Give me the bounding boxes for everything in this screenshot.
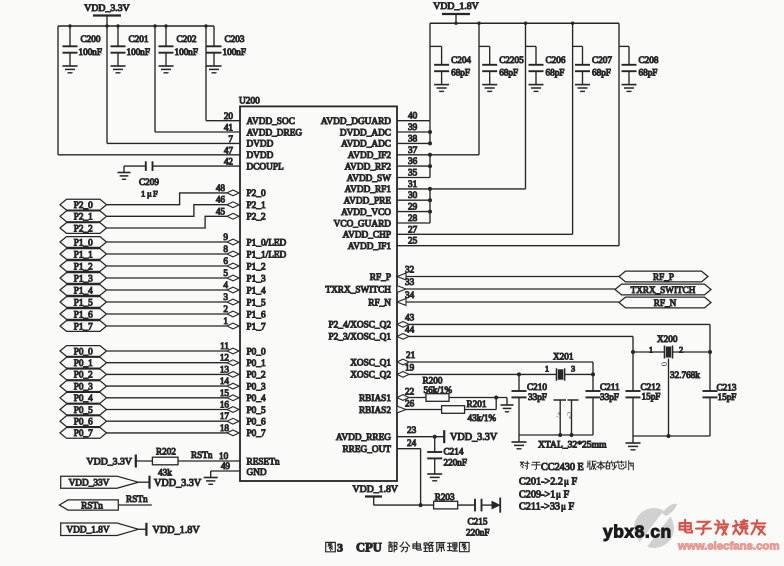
svg-text:15pF: 15pF — [718, 392, 737, 402]
svg-text:AVDD_SOC: AVDD_SOC — [247, 117, 295, 127]
svg-text:CC2430 E: CC2430 E — [541, 462, 584, 473]
port RF_N — [619, 297, 711, 308]
wire tie pins 31,30,29,28 — [397, 179, 526, 223]
svg-text:21: 21 — [406, 350, 416, 360]
svg-text:68pF: 68pF — [499, 68, 518, 78]
svg-text:F: F — [153, 189, 158, 199]
svg-text:20: 20 — [224, 111, 234, 121]
power tap VDD_1.8V under chip — [353, 484, 398, 505]
caption figure 3 — [326, 541, 469, 555]
svg-text:68pF: 68pF — [451, 68, 470, 78]
svg-text:C209: C209 — [139, 177, 159, 187]
svg-text:P1_3: P1_3 — [74, 273, 93, 283]
svg-text:40: 40 — [408, 111, 418, 121]
capacitor C202 100nF — [159, 26, 199, 66]
svg-text:42: 42 — [224, 157, 234, 167]
svg-text:45: 45 — [216, 206, 226, 216]
svg-text:33: 33 — [405, 277, 415, 287]
capacitor C203 100nF — [207, 26, 247, 66]
capacitor C204 68pF — [430, 46, 471, 84]
svg-text:RSTn: RSTn — [126, 495, 148, 505]
ground under C201 — [111, 66, 126, 73]
ground under C202 — [159, 66, 174, 73]
svg-text:C202: C202 — [177, 34, 197, 44]
svg-text:11: 11 — [220, 341, 229, 351]
pin 7 number — [228, 134, 233, 144]
pin 20 number — [224, 111, 234, 121]
svg-text:AVDD_IF2: AVDD_IF2 — [348, 151, 392, 161]
svg-text:33pF: 33pF — [528, 392, 547, 402]
wire pin 21 XOSC_Q1 — [397, 350, 593, 374]
svg-text:46: 46 — [216, 195, 226, 205]
wire P1_3 to pin 5 — [107, 268, 240, 281]
port RF_P — [619, 271, 708, 282]
svg-text:μ: μ — [147, 189, 152, 199]
svg-text:P1_5: P1_5 — [247, 298, 266, 308]
port RSTn — [59, 500, 118, 511]
port P0_0 — [60, 346, 107, 357]
wire pin 24 RREG_OUT — [397, 438, 421, 505]
svg-text:36: 36 — [408, 156, 418, 166]
terminal after C215 — [492, 498, 500, 513]
port P2_2 — [60, 223, 107, 234]
svg-text:0: 0 — [660, 362, 669, 366]
svg-text:6: 6 — [223, 256, 228, 266]
svg-text:X200: X200 — [657, 334, 678, 344]
svg-text:18: 18 — [220, 423, 230, 433]
pin 42 DCOUPL wire + number — [153, 157, 241, 167]
wire P1_2 to pin 6 — [107, 256, 240, 269]
svg-text:*7: *7 — [554, 412, 560, 418]
wire 1.8V riser x=430 — [429, 23, 431, 121]
svg-text:P0_0: P0_0 — [247, 347, 266, 357]
watermark logo circle — [634, 504, 677, 548]
ground under C204 — [434, 85, 449, 92]
port P0_4 — [60, 392, 107, 403]
wire P1_5 to pin 3 — [107, 292, 240, 305]
port P1_5 — [60, 297, 107, 308]
port P0_5 — [60, 404, 107, 415]
svg-text:U200: U200 — [239, 97, 260, 107]
wire P0_1 to pin 12 — [107, 353, 240, 366]
wire 1.8V riser x=479 — [478, 23, 480, 155]
wire tie pins 40,39,38 — [397, 111, 432, 146]
svg-text:P2_2: P2_2 — [74, 223, 93, 233]
svg-text:AVDD_IF1: AVDD_IF1 — [348, 242, 392, 252]
svg-text:32: 32 — [405, 265, 415, 275]
svg-text:33pF: 33pF — [600, 392, 619, 402]
op IC U200 CC2430 body — [239, 97, 397, 482]
capacitor C214 220nF — [427, 437, 467, 474]
svg-text:DCOUPL: DCOUPL — [247, 162, 285, 172]
wire X200 bottom rail — [633, 434, 710, 438]
svg-text:P1_6: P1_6 — [247, 310, 266, 320]
svg-text:P0_2: P0_2 — [74, 370, 93, 380]
svg-text:RSTn: RSTn — [191, 450, 213, 460]
port P2_1 — [60, 211, 107, 222]
svg-text:2: 2 — [679, 346, 683, 355]
capacitor C207 68pF — [573, 46, 613, 84]
svg-text:8: 8 — [223, 244, 228, 254]
port TXRX_SWITCH — [615, 284, 711, 295]
svg-text:44: 44 — [405, 324, 415, 334]
svg-text:P1_0: P1_0 — [74, 237, 93, 247]
svg-text:C211->33: C211->33 — [519, 502, 560, 513]
ground pin49 — [204, 478, 218, 485]
svg-text:VDD_3.3V: VDD_3.3V — [154, 478, 202, 489]
svg-text:VCO_GUARD: VCO_GUARD — [334, 219, 392, 229]
svg-text:9: 9 — [223, 232, 228, 242]
crystal X201 — [517, 352, 595, 381]
svg-text:P1_7: P1_7 — [74, 321, 93, 331]
ground RBIAS — [501, 398, 514, 412]
ground C214 — [427, 474, 442, 481]
svg-text:2: 2 — [223, 304, 228, 314]
wire P1_4 to pin 4 — [107, 280, 240, 293]
svg-text:C213: C213 — [717, 383, 737, 393]
svg-text:RREG_OUT: RREG_OUT — [342, 445, 391, 455]
svg-text:P0_3: P0_3 — [74, 381, 93, 391]
svg-text:C215: C215 — [468, 517, 488, 527]
wire 1.8V riser x=525.5 — [525, 23, 527, 189]
svg-text:37: 37 — [408, 145, 418, 155]
svg-text:47: 47 — [224, 145, 234, 155]
svg-text:P0_1: P0_1 — [74, 358, 93, 368]
wire P0_0 to pin 11 — [107, 341, 240, 354]
svg-text:17: 17 — [220, 411, 230, 421]
svg-text:P0_0: P0_0 — [74, 346, 93, 356]
capacitor C209 1uF — [124, 161, 159, 198]
svg-text:56k/1%: 56k/1% — [424, 385, 453, 395]
wire 1.8V riser x=572.6 — [572, 23, 574, 234]
svg-text:DVDD: DVDD — [247, 151, 274, 161]
svg-text:F: F — [569, 502, 575, 513]
wire P2_2 to pin 45 — [107, 206, 240, 228]
capacitor C200 100nF — [63, 26, 103, 66]
power tap VDD_3.3V mid — [150, 476, 202, 489]
svg-text:16: 16 — [220, 400, 230, 410]
svg-text:VDD_3.3V: VDD_3.3V — [84, 3, 129, 14]
svg-text:P1_2: P1_2 — [247, 262, 266, 272]
ground under C2205 — [482, 85, 497, 92]
svg-text:P1_4: P1_4 — [74, 285, 93, 295]
svg-text:XTAL_32*25mm: XTAL_32*25mm — [538, 440, 607, 451]
svg-text:1: 1 — [223, 316, 228, 326]
svg-text:31: 31 — [408, 179, 418, 189]
port P1_6 — [60, 309, 107, 320]
ground under C200 — [63, 66, 78, 73]
power VDD_1.8V top-right — [433, 1, 478, 23]
net label RSTn at pin10 — [191, 450, 213, 460]
wire pin 32 RF_P — [397, 265, 619, 280]
svg-text:C*: C* — [565, 412, 571, 419]
ground under C206 — [529, 85, 544, 92]
svg-text:C206: C206 — [546, 55, 566, 65]
svg-text:C210: C210 — [527, 382, 547, 392]
resistor R201 43k — [442, 396, 499, 424]
wire P2_0 to pin 48 — [107, 183, 240, 205]
power tap VDD_1.8V mid — [146, 523, 200, 536]
svg-text:P2_2: P2_2 — [247, 213, 266, 223]
svg-text:R203: R203 — [435, 492, 455, 502]
wire P0_3 to pin 14 — [107, 376, 240, 389]
capacitor C215 220nF — [458, 499, 497, 538]
svg-text:34: 34 — [405, 290, 415, 300]
ground X201 — [512, 435, 527, 449]
svg-text:3: 3 — [223, 292, 228, 302]
watermark elecfans red — [677, 520, 780, 553]
svg-text:43k: 43k — [158, 468, 172, 478]
pin 49 GND wire — [211, 461, 240, 478]
wire P0_5 to pin 16 — [107, 400, 240, 413]
capacitor C2205 68pF — [479, 46, 524, 84]
svg-text:C212: C212 — [641, 382, 661, 392]
svg-text:38: 38 — [408, 133, 418, 143]
svg-text:P1_5: P1_5 — [74, 297, 93, 307]
svg-text:48: 48 — [216, 183, 226, 193]
svg-text:32.768k: 32.768k — [670, 370, 700, 380]
svg-text:RBIAS1: RBIAS1 — [359, 394, 391, 404]
power tap VDD_3.3V at C214 — [444, 430, 498, 443]
svg-text:P0_6: P0_6 — [247, 418, 266, 428]
wire 1.8V riser x=619 — [618, 23, 620, 246]
wire pin 43 to X200 — [397, 312, 710, 352]
svg-text:15: 15 — [220, 388, 230, 398]
wire P1_7 to pin 1 — [107, 316, 240, 329]
svg-text:68pF: 68pF — [639, 68, 658, 78]
wire rail to pin 7 — [107, 26, 240, 143]
svg-text:P1_1/LED: P1_1/LED — [247, 250, 287, 260]
svg-text:39: 39 — [408, 122, 418, 132]
svg-text:5: 5 — [223, 268, 228, 278]
svg-text:AVDD_VCO: AVDD_VCO — [341, 208, 391, 218]
port P1_2 — [60, 261, 107, 272]
wire pin 26 — [397, 399, 442, 413]
wire rail to pin 47 — [58, 26, 240, 155]
svg-text:DVDD: DVDD — [247, 140, 274, 150]
resistor R203 — [434, 492, 458, 509]
svg-text:68pF: 68pF — [592, 68, 611, 78]
svg-text:VDD_1.8V: VDD_1.8V — [433, 1, 478, 12]
port P2_0 — [60, 199, 107, 210]
svg-text:RF_N: RF_N — [654, 298, 677, 308]
svg-text:3: 3 — [571, 365, 575, 374]
svg-text:1: 1 — [545, 365, 549, 374]
svg-text:DVDD_ADC: DVDD_ADC — [340, 128, 391, 138]
svg-text:C208: C208 — [639, 55, 659, 65]
wire pin 19 XOSC_Q2 — [397, 362, 519, 377]
wire P2_1 to pin 46 — [107, 195, 240, 217]
ground under C203 — [207, 66, 222, 73]
svg-text:P1_1: P1_1 — [74, 249, 93, 259]
wire RSTn net stub — [118, 495, 152, 505]
wire pin 22 — [397, 387, 426, 401]
resistor R200 56k — [423, 376, 508, 402]
power VDD_3.3V top-left — [84, 3, 129, 26]
svg-text:TXRX_SWITCH: TXRX_SWITCH — [325, 285, 391, 295]
wire P0_4 to pin 15 — [107, 388, 240, 401]
svg-text:43: 43 — [405, 312, 415, 322]
wire pin 33 TXRX_SWITCH — [397, 277, 615, 292]
wire P0_2 to pin 13 — [107, 364, 240, 377]
svg-text:C214: C214 — [444, 447, 464, 457]
svg-text:4: 4 — [223, 280, 228, 290]
pin 47 number — [224, 145, 234, 155]
svg-text:RF_N: RF_N — [368, 298, 391, 308]
svg-text:C211: C211 — [600, 382, 620, 392]
svg-text:P0_7: P0_7 — [74, 428, 93, 438]
svg-text:P0_6: P0_6 — [74, 417, 93, 427]
svg-text:RESETn: RESETn — [247, 457, 280, 467]
svg-text:VDD_3.3V: VDD_3.3V — [87, 456, 132, 467]
svg-text:22: 22 — [405, 387, 415, 397]
svg-text:AVDD_RF1: AVDD_RF1 — [345, 185, 392, 195]
svg-text:26: 26 — [405, 399, 415, 409]
resistor R202 43k — [136, 447, 240, 478]
svg-text:C200: C200 — [81, 34, 101, 44]
wire P0_7 to pin 18 — [107, 423, 240, 436]
capacitor C213 15pF — [703, 352, 737, 436]
svg-text:AVDD_ADC: AVDD_ADC — [341, 140, 391, 150]
svg-text:X201: X201 — [553, 352, 574, 362]
svg-text:100nF: 100nF — [79, 47, 103, 57]
svg-text:14: 14 — [220, 376, 230, 386]
svg-text:F: F — [572, 477, 578, 488]
svg-text:P1_2: P1_2 — [74, 261, 93, 271]
pin 10 number — [219, 451, 229, 461]
svg-text:P0_5: P0_5 — [247, 406, 266, 416]
svg-text:TXRX_SWITCH: TXRX_SWITCH — [631, 285, 696, 295]
svg-text:C201: C201 — [129, 34, 149, 44]
svg-text:P1_4: P1_4 — [247, 286, 266, 296]
wire 1.8V rail — [430, 22, 619, 25]
port P1_1 — [60, 249, 107, 260]
svg-text:P0_5: P0_5 — [74, 405, 93, 415]
svg-text:R202: R202 — [156, 447, 176, 457]
wire 3.3V rail — [58, 24, 214, 27]
svg-text:VDD_3.3V: VDD_3.3V — [450, 432, 498, 443]
ground X200 — [626, 436, 641, 450]
svg-text:30: 30 — [408, 190, 418, 200]
svg-text:VDD_1.8V: VDD_1.8V — [353, 484, 398, 495]
svg-text:VDD_1.8V: VDD_1.8V — [66, 526, 109, 536]
svg-text:15pF: 15pF — [642, 392, 661, 402]
wire VDD_1.8V to tap — [138, 528, 146, 530]
svg-text:www.elecfans.com: www.elecfans.com — [677, 541, 780, 553]
svg-text:23: 23 — [407, 425, 417, 435]
svg-text:P2_1: P2_1 — [247, 201, 266, 211]
port P0_2 — [60, 369, 107, 380]
ground C209 — [118, 173, 131, 180]
svg-text:GND: GND — [247, 468, 267, 478]
wire P1_0 to pin 9 — [107, 232, 240, 245]
svg-text:R200: R200 — [423, 376, 443, 386]
svg-text:P0_3: P0_3 — [247, 382, 266, 392]
port VDD_1.8V — [61, 523, 139, 536]
svg-text:P0_4: P0_4 — [247, 394, 266, 404]
svg-text:100nF: 100nF — [127, 47, 151, 57]
svg-text:R201: R201 — [467, 399, 487, 409]
svg-text:C201->2.2: C201->2.2 — [519, 477, 563, 488]
svg-text:P1_7: P1_7 — [247, 322, 266, 332]
svg-text:RF_P: RF_P — [653, 272, 674, 282]
svg-text:AVDD_PRE: AVDD_PRE — [344, 197, 392, 207]
wire pin 44 to X200 — [397, 324, 633, 352]
capacitor C206 68pF — [526, 46, 566, 84]
wire P1_6 to pin 2 — [107, 304, 240, 317]
svg-text:24: 24 — [407, 438, 417, 448]
svg-text:10: 10 — [219, 451, 229, 461]
svg-text:AVDD_DREG: AVDD_DREG — [247, 128, 303, 138]
svg-text:12: 12 — [220, 353, 230, 363]
port VDD_33V — [61, 476, 139, 488]
svg-text:28: 28 — [408, 213, 418, 223]
svg-text:RBIAS2: RBIAS2 — [359, 406, 391, 416]
svg-text:AVDD_RREG: AVDD_RREG — [336, 433, 391, 443]
capacitor C201 100nF — [111, 26, 151, 66]
wire P0_6 to pin 17 — [107, 411, 240, 424]
svg-text:43k/1%: 43k/1% — [468, 413, 497, 423]
svg-text:29: 29 — [408, 202, 418, 212]
svg-text:49: 49 — [221, 461, 231, 471]
svg-text:C204: C204 — [451, 55, 471, 65]
svg-text:100nF: 100nF — [175, 47, 199, 57]
port P1_4 — [60, 285, 107, 296]
wire VDD_33V to tap — [138, 481, 149, 483]
svg-text:μ: μ — [564, 477, 569, 487]
svg-text:F: F — [564, 490, 570, 501]
wire rail to pin 41 — [155, 26, 240, 132]
wire pin 23 AVDD_RREG — [397, 425, 444, 439]
svg-text:μ: μ — [556, 490, 561, 500]
svg-text:XOSC_Q1: XOSC_Q1 — [350, 358, 391, 368]
port P1_3 — [60, 273, 107, 284]
svg-text:3: 3 — [337, 541, 343, 555]
svg-text:P2_3/XOSC_Q1: P2_3/XOSC_Q1 — [328, 333, 391, 343]
svg-text:C2205: C2205 — [499, 55, 524, 65]
svg-text:P2_4/XOSC_Q2: P2_4/XOSC_Q2 — [328, 321, 391, 331]
port P0_6 — [60, 416, 107, 427]
svg-text:P2_0: P2_0 — [247, 189, 266, 199]
svg-text:P1_6: P1_6 — [74, 309, 93, 319]
svg-text:25: 25 — [408, 236, 418, 246]
capacitor C210 33pF — [512, 374, 548, 435]
svg-text:41: 41 — [224, 123, 234, 133]
svg-text:P2_1: P2_1 — [74, 212, 93, 222]
wire tie pins 37,36,35 — [397, 145, 479, 178]
wire pin 25 — [397, 236, 619, 246]
wire rail to pin 20 — [206, 26, 240, 121]
svg-text:7: 7 — [228, 134, 233, 144]
svg-text:P2_0: P2_0 — [74, 200, 93, 210]
svg-text:P0_1: P0_1 — [247, 359, 266, 369]
port P1_0 — [60, 237, 107, 248]
svg-text:VDD_1.8V: VDD_1.8V — [153, 525, 201, 536]
wire X201 bottom rail — [519, 433, 593, 437]
svg-text:1: 1 — [649, 346, 653, 355]
svg-text:CPU: CPU — [356, 541, 382, 555]
crystal footprint XTAL_32*25mm — [538, 400, 607, 451]
svg-text:μ: μ — [561, 502, 566, 512]
svg-text:P1_3: P1_3 — [247, 274, 266, 284]
svg-text:68pF: 68pF — [546, 68, 565, 78]
svg-text:100nF: 100nF — [223, 47, 247, 57]
port P0_1 — [60, 357, 107, 368]
svg-text:220nF: 220nF — [466, 528, 490, 538]
svg-text:27: 27 — [408, 224, 418, 234]
svg-text:35: 35 — [408, 168, 418, 178]
capacitor C211 33pF — [586, 374, 620, 435]
